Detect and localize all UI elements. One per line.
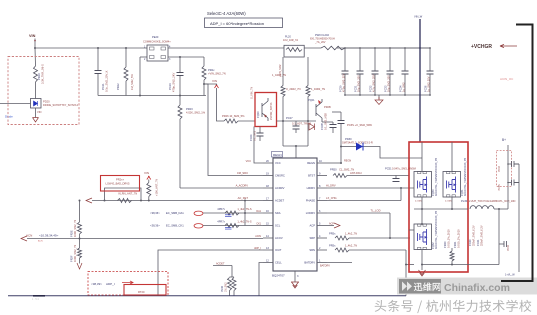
capacitor PC2B xyxy=(330,125,337,128)
svg-text:VCC: VCC xyxy=(246,159,252,163)
svg-text:HI_DRV: HI_DRV xyxy=(326,184,336,188)
junction xyxy=(405,264,407,266)
junction xyxy=(34,47,36,49)
wire cap PC33 upper xyxy=(389,48,391,71)
svg-text:AO4407AL_TRANSISTOR4R3_PB: AO4407AL_TRANSISTOR4R3_PB xyxy=(435,158,438,196)
wire SRP xyxy=(349,237,410,239)
junction xyxy=(421,208,423,210)
junction xyxy=(359,94,361,96)
wire ACP stub xyxy=(327,225,334,227)
svg-text:1+VL_W: 1+VL_W xyxy=(505,274,515,277)
wire cap branch xyxy=(97,48,99,70)
capacitor PC33 xyxy=(387,71,394,74)
junction xyxy=(125,47,127,49)
svg-text:LX_CHG: LX_CHG xyxy=(326,196,337,200)
svg-text:0.010_1%_2010: 0.010_1%_2010 xyxy=(456,229,460,248)
svg-text:Chinafix.com: Chinafix.com xyxy=(444,282,510,294)
svg-text:1M_SM2_5%: 1M_SM2_5% xyxy=(130,73,134,90)
svg-text:ACN: ACN xyxy=(38,240,43,243)
svg-text:0.047u_SM3_MN5M: 0.047u_SM3_MN5M xyxy=(392,167,416,171)
svg-text:10u_SM2_25V: 10u_SM2_25V xyxy=(357,75,361,92)
annotation red box PRT20 xyxy=(124,285,166,296)
junction xyxy=(179,56,181,58)
junction xyxy=(389,47,391,49)
wire cap PC31 upper xyxy=(359,48,361,71)
pin 13 stub xyxy=(263,249,273,251)
pin 3 PGND stub xyxy=(294,271,296,282)
wire PC45 tail xyxy=(514,182,519,184)
svg-text:<38,36>: <38,36> xyxy=(150,211,160,215)
svg-text:CMSRC: CMSRC xyxy=(275,174,285,178)
junction xyxy=(140,200,142,202)
resistor PR27 xyxy=(281,86,285,97)
inductor PL20 winding xyxy=(286,48,302,52)
resistor PR50 xyxy=(333,174,347,178)
wire to VIN return xyxy=(35,108,37,118)
svg-text:BQ24707: BQ24707 xyxy=(272,274,285,278)
wire CELL down xyxy=(259,263,263,296)
junction xyxy=(404,94,406,96)
svg-text:IOUT: IOUT xyxy=(275,248,282,252)
wire cap PC30 lower xyxy=(344,74,346,95)
watermark band xyxy=(397,278,537,295)
annotation red connector ADP_I xyxy=(122,281,133,284)
wire branch join xyxy=(283,145,308,147)
svg-text:1u_SM2: 1u_SM2 xyxy=(402,82,406,92)
wire to PD30 xyxy=(341,146,356,148)
svg-text:PC45: PC45 xyxy=(498,184,501,191)
wire PQ21 out xyxy=(322,121,333,123)
pin 4 stub xyxy=(317,237,327,239)
junction xyxy=(421,223,423,225)
wire cap PC34 lower xyxy=(404,74,406,95)
svg-text:1_4k2_7N: 1_4k2_7N xyxy=(345,232,357,236)
resistor pull-up EC_SMB_DA1 xyxy=(225,211,239,215)
svg-text:PHASE: PHASE xyxy=(306,199,315,203)
wire +VCHGR arrow xyxy=(500,44,517,47)
svg-text:ACIN_OC: ACIN_OC xyxy=(500,77,514,81)
svg-text:CM_SRC: CM_SRC xyxy=(237,171,248,175)
svg-text:4PR7x: 4PR7x xyxy=(217,220,225,224)
svg-text:LODRV: LODRV xyxy=(306,211,315,215)
title box xyxy=(205,18,283,28)
transistor PQ31 xyxy=(443,172,461,198)
pin 15 stub xyxy=(263,225,273,227)
svg-text:330uF_SM8_6.3V: 330uF_SM8_6.3V xyxy=(479,225,483,246)
pin 20 stub xyxy=(263,162,273,164)
wire HIDRV xyxy=(327,187,414,189)
svg-text:C_24R2_7N: C_24R2_7N xyxy=(286,87,301,91)
capacitor PC34 xyxy=(402,71,409,74)
svg-text:330uF_SM8_6.3V: 330uF_SM8_6.3V xyxy=(471,225,475,246)
svg-text:ACP: ACP xyxy=(329,222,334,225)
diode PD21 xyxy=(309,124,315,131)
svg-text:REGN: REGN xyxy=(344,160,351,163)
svg-text:1_4k2_7N: 1_4k2_7N xyxy=(345,244,357,248)
wire choke pin2 drop xyxy=(139,57,141,96)
capacitor PC42 xyxy=(504,241,507,247)
svg-text:3.3K_TKR_JM-S: 3.3K_TKR_JM-S xyxy=(41,64,45,84)
wire ACDET xyxy=(92,200,263,202)
wire PR40 down xyxy=(451,261,453,265)
junction xyxy=(429,47,431,49)
photocoupler PD20 box xyxy=(31,99,42,109)
capacitor PC35 xyxy=(338,121,345,124)
wire PC44 stub xyxy=(508,163,512,165)
svg-text:<38,39>: <38,39> xyxy=(91,282,102,286)
svg-text:BATDRV: BATDRV xyxy=(304,261,315,265)
svg-text:B+: B+ xyxy=(502,138,506,142)
wire REGN xyxy=(327,162,341,164)
wire ACN xyxy=(27,238,263,240)
svg-text:DIODE_SCHOTTKY_SOT23-2: DIODE_SCHOTTKY_SOT23-2 xyxy=(43,103,79,107)
wire ACDRV xyxy=(180,187,263,189)
svg-text:PR50: PR50 xyxy=(330,168,337,172)
wire cap PC36 lower xyxy=(429,74,431,95)
svg-text:4.02K_SM2_1%: 4.02K_SM2_1% xyxy=(186,111,206,115)
wire cap branch lower xyxy=(97,74,99,96)
wire SW column xyxy=(498,209,500,265)
svg-text:HIDRV: HIDRV xyxy=(307,186,316,190)
resistor pull-up EC_SMB_CK1 xyxy=(225,224,239,228)
junction xyxy=(340,162,342,164)
wire PC45 stub xyxy=(508,182,512,184)
wire B+ to PQ30 xyxy=(421,142,423,172)
inductor PL30 xyxy=(470,206,494,209)
wire PR26 to PQ20 xyxy=(238,120,255,122)
wire PQ30 to PQ32 xyxy=(421,197,423,224)
ground IC chevron xyxy=(291,282,299,288)
wire top rail mid xyxy=(168,47,284,49)
junction xyxy=(374,47,376,49)
wire LODRV xyxy=(327,212,390,214)
wire sense rail xyxy=(422,264,499,266)
svg-text:ADP_I: ADP_I xyxy=(106,282,115,286)
wire LODRV gate stub xyxy=(409,229,414,231)
resistor PR2E xyxy=(78,222,82,234)
power flag VIN return xyxy=(33,118,39,123)
watermark logo chevron xyxy=(402,282,412,291)
annotation red box power MOSFETs xyxy=(409,142,468,272)
svg-text:COMMCHOKE_SOM4+: COMMCHOKE_SOM4+ xyxy=(143,40,171,44)
wire PL20 branch B xyxy=(307,57,309,86)
resistor PR2C xyxy=(118,199,132,203)
watermark logo box xyxy=(399,279,441,294)
wire res branch xyxy=(125,48,127,67)
svg-text:ACP: ACP xyxy=(309,224,315,228)
wire divider b2 xyxy=(233,291,235,296)
resistor PR28 xyxy=(306,86,310,97)
svg-text:PR20: PR20 xyxy=(37,73,41,80)
svg-text:ACN: ACN xyxy=(26,234,32,238)
svg-text:PC44: PC44 xyxy=(498,165,501,172)
wire sense into box xyxy=(406,264,414,266)
junction xyxy=(344,47,346,49)
junction xyxy=(507,163,509,165)
svg-text:PD30: PD30 xyxy=(345,137,352,141)
svg-text:0.1_SM2_M3B: 0.1_SM2_M3B xyxy=(324,113,328,130)
resistor PR26 xyxy=(224,119,238,123)
svg-text:PW0 FL202: PW0 FL202 xyxy=(315,33,329,37)
wire to page edge xyxy=(0,103,31,105)
svg-text:VCC: VCC xyxy=(275,161,281,165)
wire PQ31 to SW xyxy=(451,197,453,209)
junction xyxy=(389,237,391,239)
wire SRN xyxy=(349,249,406,251)
inductor FL202 winding xyxy=(321,46,345,50)
net label REGN above IC xyxy=(272,152,283,158)
svg-text:PR26 10_SM2_5%: PR26 10_SM2_5% xyxy=(222,114,245,118)
capacitor bank top rail xyxy=(337,47,430,49)
svg-text:CK1: CK1 xyxy=(256,222,261,225)
pin 1 stub xyxy=(317,262,327,264)
svg-text:PC21: PC21 xyxy=(101,83,105,90)
junction xyxy=(507,182,509,184)
wire PC44 tail xyxy=(514,163,519,165)
svg-text:PC42: PC42 xyxy=(507,244,510,251)
wire PC51 stub xyxy=(395,176,397,179)
svg-text:ACIN: ACIN xyxy=(255,235,261,238)
svg-text:PQ21: PQ21 xyxy=(308,98,315,102)
wire divider lower xyxy=(79,258,81,264)
capacitor PC24 xyxy=(257,133,264,136)
svg-text:PL20: PL20 xyxy=(285,36,291,39)
resistor PR23 xyxy=(178,105,182,119)
capacitor PC44 xyxy=(512,161,515,167)
wire divider mid xyxy=(79,234,81,239)
junction xyxy=(307,120,309,122)
pin 8 stub xyxy=(317,187,327,189)
junction xyxy=(203,83,205,85)
junction xyxy=(374,94,376,96)
svg-text:ADP_I: ADP_I xyxy=(254,247,261,250)
svg-text:ADP_I = 60*Indegree*Rossion: ADP_I = 60*Indegree*Rossion xyxy=(210,21,264,26)
svg-text:VIN: VIN xyxy=(37,110,41,114)
pin 7 stub xyxy=(317,200,327,202)
svg-text:PR2x: PR2x xyxy=(208,68,215,72)
resistor PR24 xyxy=(202,66,206,80)
annotation red box PQ20 xyxy=(255,93,277,127)
junction xyxy=(179,95,181,97)
wire EC_SMB_DA1 xyxy=(203,212,263,214)
junction xyxy=(421,264,423,266)
svg-text:VIN: VIN xyxy=(29,34,36,38)
junction xyxy=(404,47,406,49)
resistor PR30 xyxy=(228,278,232,291)
wire to IC VCC top xyxy=(295,146,297,158)
diode PD30 xyxy=(356,143,363,151)
pin 17 stub xyxy=(263,200,273,202)
wire PC35 top stub xyxy=(332,111,341,113)
svg-text:VIN_W: VIN_W xyxy=(414,15,423,19)
junction xyxy=(389,94,391,96)
junction xyxy=(79,238,81,240)
power dot VIN xyxy=(34,40,36,42)
wire PC23 branch xyxy=(179,57,181,72)
svg-text:10U_10R_7A: 10U_10R_7A xyxy=(283,39,298,42)
power flag VIN pullup xyxy=(147,177,151,180)
wire PHASE riser xyxy=(400,188,402,201)
svg-text:1_C4R2_7N: 1_C4R2_7N xyxy=(272,73,286,77)
wire IOUT to ADP_I xyxy=(158,250,263,296)
capacitor marking EC_SMB_CK1 xyxy=(225,227,232,229)
pin 9 stub xyxy=(317,175,327,177)
wire VIN pullup lower xyxy=(148,197,150,201)
resistor PR2D xyxy=(147,183,151,197)
capacitor PC30 xyxy=(342,71,349,74)
svg-text:PR2F: PR2F xyxy=(70,255,74,262)
svg-text:SRP: SRP xyxy=(309,236,315,240)
svg-text:A_ACDRV: A_ACDRV xyxy=(236,184,249,188)
capacitor PC32 xyxy=(372,71,379,74)
wire cap PC36 upper xyxy=(429,48,431,71)
wire CMSRC to PR24 node xyxy=(204,84,263,176)
wire divider drop xyxy=(231,266,233,278)
junction xyxy=(97,47,99,49)
wire PL30 to B+ xyxy=(494,208,508,210)
wire PC24 lower xyxy=(259,136,261,141)
svg-text:SDA: SDA xyxy=(275,211,281,215)
resistor PR31 xyxy=(232,278,236,291)
capacitor PC21 xyxy=(95,71,102,74)
wire cap bank bottom rail xyxy=(345,94,430,96)
svg-text:PC24: PC24 xyxy=(249,134,253,141)
wire PC35 to REGN xyxy=(340,124,342,163)
wire B+ vertical xyxy=(507,145,509,209)
capacitor PC36 xyxy=(427,71,434,74)
resistor PR53 xyxy=(335,248,349,252)
wire divider tie top xyxy=(230,276,235,278)
svg-text:ACOV: ACOV xyxy=(275,236,283,240)
wire sense divider upper xyxy=(79,201,81,223)
svg-text:0.1_SM2: 0.1_SM2 xyxy=(253,130,257,141)
transistor PQ32 xyxy=(414,224,432,250)
svg-text:ANT-DIGI: ANT-DIGI xyxy=(350,171,362,175)
annotation red ellipse EC_SMB_DA1 xyxy=(194,211,203,215)
capacitor PC23 xyxy=(177,73,184,76)
resistor PR22 xyxy=(124,67,128,81)
junction xyxy=(359,47,361,49)
svg-text:1M_SM2: 1M_SM2 xyxy=(225,282,228,292)
svg-text:VIN: VIN xyxy=(212,79,217,83)
wire SRN to bottom rail xyxy=(405,250,407,296)
svg-text:1 . 5 4: 1 . 5 4 xyxy=(32,298,39,301)
svg-text:CELL: CELL xyxy=(275,261,282,265)
pin 10 stub xyxy=(317,162,327,164)
wire VIN_W vertical xyxy=(419,19,421,142)
svg-text:PR22: PR22 xyxy=(116,83,120,90)
svg-text:RT20: RT20 xyxy=(138,290,145,294)
capacitor marking EC_SMB_DA1 xyxy=(225,215,232,217)
wire bank ground stub xyxy=(378,95,380,99)
wire PC27 stub xyxy=(295,121,297,126)
wire PC42 stub xyxy=(499,243,504,245)
svg-text:4PR7x: 4PR7x xyxy=(217,207,225,211)
svg-text:AO4407AL_TRANSISTOR4R3_PB: AO4407AL_TRANSISTOR4R3_PB xyxy=(464,158,467,196)
svg-text:100K_SM2_7N: 100K_SM2_7N xyxy=(73,245,77,262)
junction xyxy=(79,200,81,202)
capacitor PC31 xyxy=(357,71,364,74)
svg-text:EC_SMB_DA1: EC_SMB_DA1 xyxy=(166,211,184,215)
svg-text:PC2B: PC2B xyxy=(320,123,324,130)
capacitor PC51 xyxy=(393,179,400,182)
svg-text:0.1u_SM2_25V_K: 0.1u_SM2_25V_K xyxy=(105,70,109,92)
junction xyxy=(244,212,246,214)
svg-text:+VCHGR: +VCHGR xyxy=(471,44,492,50)
junction xyxy=(104,200,106,202)
power flag VIN xyxy=(215,85,219,88)
svg-text:DA1: DA1 xyxy=(256,210,261,213)
wire PC23 to PR23 xyxy=(179,76,181,105)
svg-text:ACDET: ACDET xyxy=(216,262,225,265)
svg-text:AC_DET: AC_DET xyxy=(238,196,249,200)
svg-text:PR5x: PR5x xyxy=(329,244,336,248)
pin 5 stub xyxy=(317,225,327,227)
svg-text:470u_SM2_25V: 470u_SM2_25V xyxy=(342,73,346,92)
svg-text:10u_SM2_25V: 10u_SM2_25V xyxy=(387,75,391,92)
wire PC2B tail xyxy=(332,128,334,134)
inductor PL20 xyxy=(284,45,304,57)
photocoupler PD20 diode xyxy=(34,101,38,106)
svg-text:PC27: PC27 xyxy=(286,116,293,120)
wire VIN to PQ20 xyxy=(217,88,225,121)
wire choke pin2 stub xyxy=(140,56,147,58)
wire cap PC30 upper xyxy=(344,48,346,71)
wire VIN pullup upper xyxy=(148,180,150,183)
wire divider mid2 xyxy=(79,239,81,249)
wire BTST xyxy=(347,175,409,177)
svg-text:2N7002_SOT23: 2N7002_SOT23 xyxy=(270,102,273,120)
svg-text:S_VIN_7N: S_VIN_7N xyxy=(250,87,254,99)
wire VIN branch xyxy=(34,48,37,66)
wire B+ caps return xyxy=(518,164,520,272)
wire bottom rail xyxy=(8,295,406,297)
svg-text:SelectC-4 A2A(60W): SelectC-4 A2A(60W) xyxy=(207,11,246,16)
svg-text:470p_SM2_2KV: 470p_SM2_2KV xyxy=(172,73,176,92)
svg-text:PR5x: PR5x xyxy=(329,232,336,236)
bus border bottom (over watermark) xyxy=(501,25,533,282)
svg-text:6X1.75UH5050-70UH: 6X1.75UH5050-70UH xyxy=(310,37,335,41)
pin 2 stub xyxy=(317,249,327,251)
pin 18 stub xyxy=(263,187,273,189)
svg-text:PL30: PL30 xyxy=(461,199,468,203)
wire divider top xyxy=(213,265,232,267)
wire branch A down xyxy=(282,97,284,147)
wire to photodiode xyxy=(35,82,37,99)
net connector ACP xyxy=(334,223,340,228)
pin 6 stub xyxy=(317,212,327,214)
svg-text:C1_SM2_7N: C1_SM2_7N xyxy=(339,168,354,172)
wire PR24 to flag xyxy=(204,84,217,85)
junction xyxy=(282,120,284,122)
svg-text:VIN: VIN xyxy=(144,171,149,175)
svg-text:<10,38,34,49>: <10,38,34,49> xyxy=(39,234,59,238)
resistor PR20 xyxy=(34,66,38,82)
junction xyxy=(429,94,431,96)
svg-text:SCL: SCL xyxy=(275,224,281,228)
net connector KLRN_ANT xyxy=(86,198,92,203)
annotation red ellipse EC_SMB_CK1 xyxy=(194,224,203,228)
svg-text:REGN: REGN xyxy=(307,161,315,165)
transistor PQ20 xyxy=(262,98,268,121)
wire cap44 tail join xyxy=(514,163,519,165)
wire cap PC32 upper xyxy=(374,48,376,71)
wire top rail left xyxy=(35,47,147,49)
wire bottom rail left xyxy=(98,95,206,97)
annotation dashed box input stage xyxy=(8,57,79,125)
net connector down xyxy=(77,263,82,269)
junction xyxy=(498,208,500,210)
